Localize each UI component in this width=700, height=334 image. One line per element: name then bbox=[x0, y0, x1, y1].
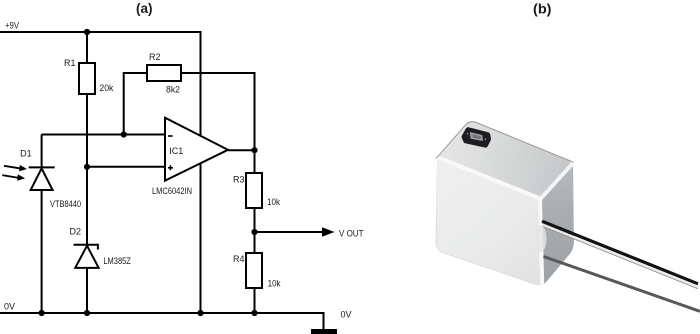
svg-text:R2: R2 bbox=[149, 52, 161, 62]
svg-text:R4: R4 bbox=[233, 254, 245, 264]
svg-text:20k: 20k bbox=[99, 83, 113, 93]
svg-text:LMC6042IN: LMC6042IN bbox=[152, 186, 192, 196]
svg-text:10k: 10k bbox=[268, 278, 281, 288]
svg-text:V OUT: V OUT bbox=[339, 229, 364, 239]
svg-text:VTB8440: VTB8440 bbox=[50, 199, 81, 209]
svg-text:R3: R3 bbox=[233, 174, 245, 184]
svg-text:10k: 10k bbox=[267, 197, 280, 207]
svg-text:+9V: +9V bbox=[5, 20, 19, 30]
svg-text:D2: D2 bbox=[70, 226, 82, 236]
svg-text:R1: R1 bbox=[64, 58, 76, 68]
svg-text:0V: 0V bbox=[341, 309, 352, 319]
svg-text:D1: D1 bbox=[20, 148, 32, 158]
svg-text:(b): (b) bbox=[533, 1, 552, 16]
svg-text:(a): (a) bbox=[136, 1, 153, 16]
svg-text:0V: 0V bbox=[4, 301, 15, 311]
svg-text:LM385Z: LM385Z bbox=[103, 256, 131, 266]
svg-text:IC1: IC1 bbox=[169, 146, 183, 156]
svg-text:8k2: 8k2 bbox=[166, 84, 180, 94]
